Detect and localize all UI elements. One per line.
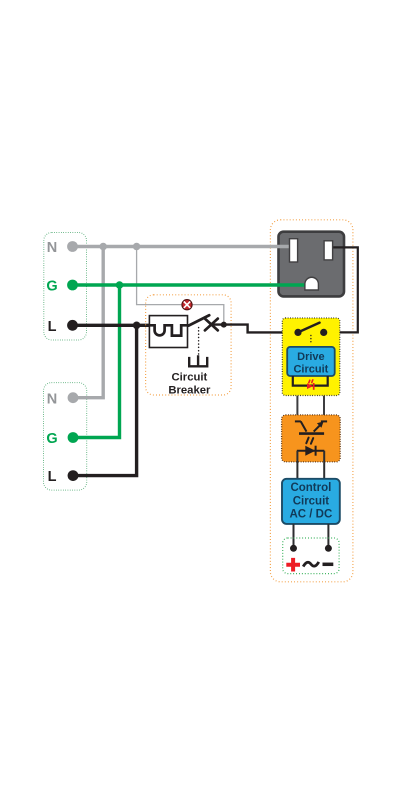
photon marks [306, 438, 313, 444]
symbol plus [286, 558, 300, 572]
symbol AC tilde [303, 562, 319, 567]
junction breaker output [221, 322, 227, 328]
svg-text:N: N [47, 391, 57, 407]
trip indicator circle [182, 300, 192, 310]
breaker thermal element body [149, 316, 187, 348]
LED triangle [307, 383, 313, 389]
terminal dot G1 [67, 280, 78, 291]
wire hot from receptacle to relay [328, 247, 358, 332]
breaker switch blade (open) [189, 315, 210, 325]
relay linkage dotted [310, 336, 312, 345]
trip linkage dotted line [198, 328, 200, 355]
wire relay module to optocoupler right [323, 396, 325, 422]
terminal block box 2 (load side N/G/L) [44, 383, 87, 491]
wire control to supply left [293, 524, 295, 548]
junction ground [116, 281, 124, 289]
supply terminal - [325, 545, 332, 552]
svg-text:Breaker: Breaker [168, 384, 211, 396]
terminal dot L1 [67, 320, 78, 331]
wire neutral drop N1 to N2 [73, 247, 103, 398]
svg-text:N: N [47, 240, 57, 256]
terminal block box 1 (line side N/G/L) [44, 233, 87, 341]
trip sense line from indicator to L wire [192, 305, 223, 325]
relay contact left [294, 329, 301, 336]
LED cathode bar [313, 383, 315, 390]
receptacle neutral slot [290, 239, 298, 262]
junction trip sense on N wire [133, 243, 141, 251]
terminal dot N2 [68, 392, 79, 403]
phototransistor base bar [299, 432, 324, 435]
svg-text:G: G [46, 431, 57, 447]
svg-text:AC / DC: AC / DC [289, 509, 332, 521]
symbol minus [323, 563, 334, 567]
wire neutral horizontal N1 to outlet [73, 245, 292, 248]
wire ground horizontal G1 to outlet [73, 283, 310, 286]
drive circuit blue box [287, 347, 335, 376]
trip latch symbol [189, 355, 207, 366]
breaker contact X mark [205, 319, 218, 331]
trip sense line (thin) to indicator [137, 247, 182, 305]
opto LED cathode bar [315, 446, 317, 456]
terminal dot G2 [68, 432, 79, 443]
wire control to supply right [327, 524, 329, 548]
wire breaker output to relay switch [212, 325, 297, 333]
relay contact right [320, 329, 327, 336]
svg-text:G: G [46, 279, 57, 295]
svg-text:Circuit: Circuit [293, 495, 330, 507]
junction line [133, 322, 141, 330]
svg-text:L: L [48, 469, 57, 485]
phototransistor emitter with arrow [314, 424, 322, 432]
receptacle body [279, 232, 345, 297]
relay switch blade [298, 323, 320, 333]
trip indicator X [184, 302, 190, 308]
opto LED diode triangle [305, 446, 315, 456]
relay / drive circuit yellow module [282, 318, 340, 396]
svg-text:Circuit: Circuit [293, 364, 328, 376]
svg-text:Drive: Drive [297, 351, 325, 363]
wire opto to control left [296, 451, 298, 479]
optocoupler orange module [282, 415, 341, 462]
terminal dot L2 [68, 470, 79, 481]
wire line horizontal L1 to breaker [73, 324, 151, 327]
smart outlet dashed enclosure [270, 220, 353, 582]
svg-text:Circuit: Circuit [172, 372, 208, 384]
wire line drop L1 to L2 [73, 325, 137, 475]
terminal dot N1 [67, 241, 78, 252]
svg-text:Control: Control [290, 482, 331, 494]
supply terminal + [290, 545, 297, 552]
opto LED diode wire [297, 450, 324, 452]
wire opto to control right [323, 451, 325, 479]
phototransistor collector diagonal [301, 421, 307, 431]
receptacle ground slot [305, 277, 319, 290]
breaker thermal squiggle [149, 325, 188, 335]
svg-text:L: L [48, 319, 57, 335]
phototransistor emitter tick [321, 420, 327, 422]
receptacle hot slot [324, 241, 333, 260]
LED loop wire [293, 376, 328, 386]
power supply dashed box [283, 538, 339, 574]
phototransistor collector tick [295, 420, 301, 422]
wire relay module to optocoupler left [296, 396, 298, 422]
circuit breaker dashed enclosure [146, 295, 232, 395]
wire ground drop G1 to G2 [73, 285, 120, 438]
junction neutral [99, 243, 107, 251]
control circuit blue box [282, 479, 340, 524]
LED emission sparks [309, 380, 313, 383]
